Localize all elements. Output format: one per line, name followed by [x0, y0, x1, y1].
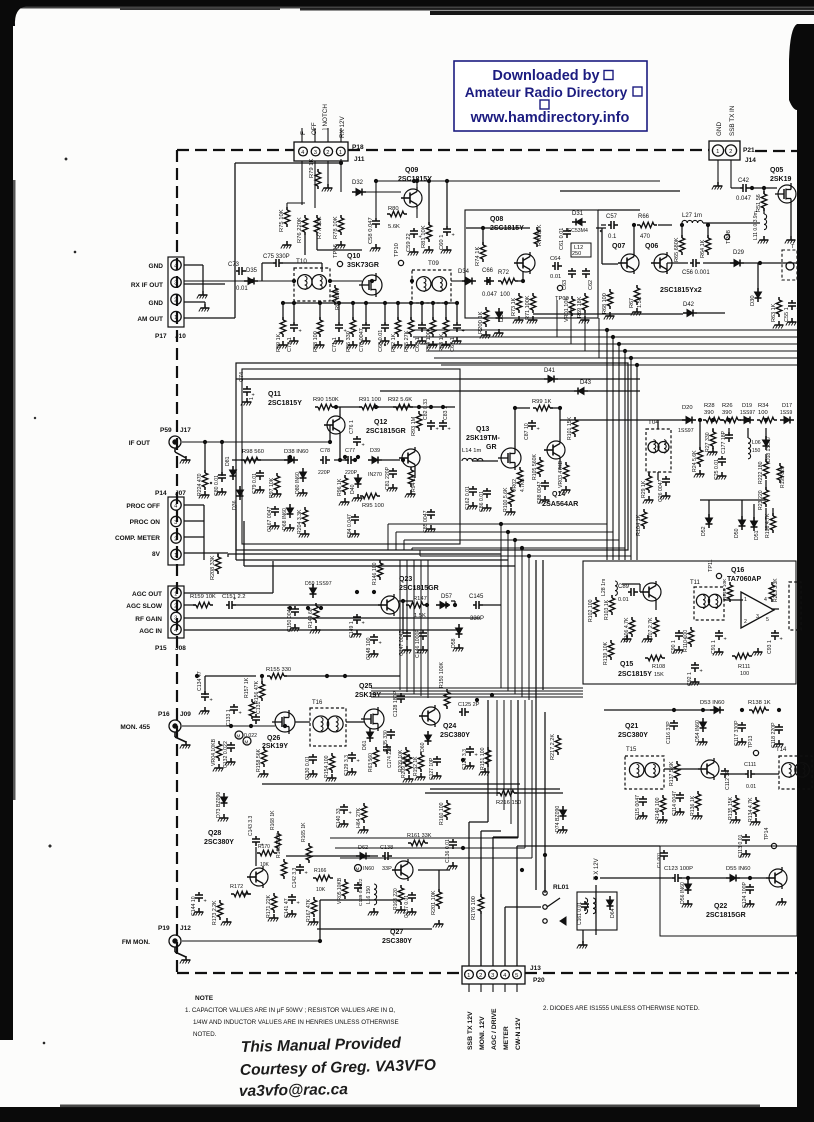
resistor R74 1K: [482, 242, 484, 245]
riser J13 pin1: [468, 822, 470, 966]
wire Q12 emitter chain: [414, 469, 416, 478]
svg-text:+: +: [305, 871, 308, 877]
svg-text:R108: R108: [652, 664, 665, 670]
bus wire h3-3: [371, 696, 583, 698]
capacitor C59 22u: [413, 228, 415, 231]
svg-text:R87 10K: R87 10K: [335, 288, 341, 310]
wire C56-D29: [703, 262, 734, 264]
svg-text:R81 10K: R81 10K: [421, 225, 427, 248]
coax ground stub 2: [174, 732, 176, 737]
resistor R69 18K: [584, 293, 586, 296]
svg-text:D57: D57: [441, 594, 453, 600]
R74 top: [482, 228, 484, 245]
bus lower v4: [524, 700, 526, 848]
link C177 drop: [728, 428, 730, 436]
svg-text:R138 1K: R138 1K: [748, 700, 771, 706]
ground R158: [263, 770, 265, 774]
svg-text:33P: 33P: [382, 866, 392, 872]
wire AGC IN: [184, 629, 460, 631]
resistor R84 100K: [432, 317, 434, 320]
wire P18 pin1 down: [340, 159, 342, 192]
svg-text:D80 IN60: D80 IN60: [295, 472, 301, 494]
resistor R73 1K: [518, 293, 520, 296]
ground D40: [357, 494, 359, 498]
capacitor C118 220P: [778, 724, 780, 727]
coax ground stub 3: [174, 947, 176, 952]
svg-text:+: +: [349, 811, 352, 817]
capacitor C80 0.01: [221, 472, 223, 475]
resistor R165 1K: [308, 843, 310, 846]
svg-text:R111: R111: [738, 664, 750, 670]
diode D19 1SS97: [740, 419, 744, 421]
svg-text:MON. 455: MON. 455: [120, 724, 150, 731]
svg-text:MONI. 12V: MONI. 12V: [479, 1016, 486, 1050]
svg-text:R137 5.6K: R137 5.6K: [669, 761, 675, 786]
svg-text:3: 3: [756, 614, 759, 620]
svg-text:AGC IN: AGC IN: [139, 628, 162, 635]
P14 pin4 wire: [184, 504, 204, 506]
svg-text:D20: D20: [682, 405, 693, 411]
resistor R160 100: [446, 800, 448, 803]
transformer T10: [294, 268, 330, 301]
wire Q09 top rail: [376, 180, 660, 182]
pot VR04 10KB: [218, 741, 220, 744]
wire L14 to Q13: [472, 460, 498, 462]
transistor Q14: [547, 441, 565, 459]
ground Q22: [781, 898, 783, 902]
transformer T01 sliver: [782, 250, 797, 280]
resistor R71 100K: [532, 293, 534, 296]
q27 wire: [418, 869, 450, 871]
resistor R103 1K: [611, 595, 613, 598]
svg-text:TP08: TP08: [726, 230, 732, 244]
svg-text:R78 10K: R78 10K: [333, 216, 339, 239]
resistor R65 680K: [681, 235, 683, 238]
ground R201: [438, 920, 440, 924]
svg-text:GND: GND: [149, 263, 164, 270]
svg-text:2SK19TM-: 2SK19TM-: [466, 435, 501, 442]
wire Q15 out: [655, 603, 657, 610]
capacitor C140 33u: [343, 804, 345, 807]
svg-text:1SS97: 1SS97: [678, 428, 694, 434]
svg-text:+: +: [204, 899, 207, 905]
page corner: [13, 7, 26, 27]
capacitor C136 0.01: [452, 839, 454, 842]
svg-text:R68 100: R68 100: [602, 293, 608, 314]
svg-text:R224 470: R224 470: [197, 473, 203, 496]
capacitor C64 0.01: [552, 265, 555, 267]
riser pin4 elbow: [505, 906, 541, 908]
resistor R26 390: [721, 419, 724, 421]
svg-text:C123 100P: C123 100P: [664, 866, 693, 872]
bus wire v2-3: [521, 548, 523, 697]
svg-text:C55 1: C55 1: [784, 307, 790, 322]
resistor R102 100: [595, 597, 597, 600]
resistor R97 10K: [276, 473, 278, 476]
ground R94: [410, 490, 412, 494]
ground C84: [354, 530, 356, 534]
svg-text:0.01: 0.01: [746, 784, 756, 790]
TX12V wire: [595, 885, 597, 935]
svg-text:R222 180: R222 180: [758, 461, 764, 484]
svg-text:3: 3: [174, 616, 177, 622]
ground R69: [584, 316, 586, 320]
ground C162: [472, 502, 474, 506]
wire D35-T10: [258, 280, 294, 282]
ground C69: [421, 337, 423, 341]
svg-text:C71 1: C71 1: [332, 337, 338, 352]
bus left-reach 1: [228, 553, 501, 555]
svg-text:R159 10K: R159 10K: [190, 594, 216, 600]
svg-text:C131: C131: [256, 701, 262, 714]
agc row wire: [560, 419, 686, 421]
scan left black bar: [0, 0, 13, 1040]
svg-text:P19: P19: [158, 925, 170, 932]
stage box Q15/Q16: [583, 561, 796, 684]
svg-text:R208 33K: R208 33K: [210, 555, 216, 580]
wire AM OUT riser: [234, 281, 236, 318]
connector P16/J09 (MON.455): [169, 720, 181, 732]
ground C88: [544, 496, 546, 500]
capacitor C69 1u: [421, 322, 423, 325]
ground C140: [343, 820, 345, 824]
ground R140: [662, 816, 664, 820]
coil L12 250u: [571, 243, 591, 257]
diode D64: [609, 896, 611, 900]
bus wire h2stub1: [395, 532, 397, 550]
dashed border bottom-right segment: [525, 972, 797, 974]
svg-text:D74 BZ090: D74 BZ090: [555, 806, 561, 832]
link R29 top: [648, 472, 650, 476]
riser pin1 up: [487, 700, 489, 822]
bus v to bottom 1: [535, 560, 537, 690]
wire C57 row: [601, 224, 606, 226]
diode D59 1SS97: [312, 584, 314, 588]
wire RF GAIN: [184, 617, 480, 619]
riser J13 pin4: [504, 907, 506, 966]
test point TP13: [753, 750, 758, 755]
svg-text:R92 5.6K: R92 5.6K: [388, 397, 412, 403]
svg-text:R98 560: R98 560: [242, 449, 264, 455]
svg-text:R195 820: R195 820: [780, 466, 786, 488]
resistor R83 1K: [445, 317, 447, 320]
capacitor C134 47u: [204, 691, 206, 694]
top-to-bus v1: [570, 306, 572, 344]
bus wire h2-4: [420, 555, 631, 557]
svg-text:R134 4.7K: R134 4.7K: [748, 797, 754, 822]
resistor R169 100K: [283, 859, 285, 862]
resistor R99 1K: [533, 407, 536, 409]
top-to-bus v3: [598, 318, 600, 358]
ground C127: [436, 772, 438, 776]
svg-text:D41: D41: [544, 368, 556, 374]
resistor R157 1K: [251, 699, 253, 702]
coil L28 1m: [615, 581, 617, 586]
svg-text:D73 BZ090: D73 BZ090: [216, 792, 222, 818]
capacitor C124 100P: [749, 884, 751, 887]
svg-text:FM MON.: FM MON.: [122, 939, 150, 946]
svg-text:D58: D58: [451, 638, 457, 648]
resistor R219 10K: [729, 582, 731, 585]
wire R86 top: [352, 303, 354, 320]
diode D57: [436, 604, 440, 606]
svg-text:J10: J10: [175, 333, 186, 340]
wire opamp out: [771, 608, 779, 610]
J13 pin1 lead down: [468, 984, 470, 992]
svg-text:L06: L06: [752, 440, 761, 446]
resistor R51 56: [763, 191, 765, 194]
resistor R63 1K: [778, 297, 780, 300]
wire to C123: [600, 877, 672, 879]
diode D20 1SS97: [682, 419, 686, 421]
resistor R111 100: [732, 655, 735, 657]
capacitor C77 220P: [345, 459, 348, 461]
svg-text:C112 3P: C112 3P: [725, 770, 731, 790]
diode D73 BZ090: [223, 793, 225, 797]
svg-text:2SC1815Y: 2SC1815Y: [268, 400, 302, 407]
svg-text:R82 1K: R82 1K: [391, 333, 397, 352]
svg-text:T11: T11: [690, 580, 701, 586]
svg-text:+: +: [462, 329, 465, 335]
svg-text:C66: C66: [482, 268, 494, 274]
svg-text:R170: R170: [258, 844, 270, 850]
resistor R159 10K: [193, 604, 196, 606]
capacitor C74 1u: [246, 386, 248, 389]
svg-text:R79 1K: R79 1K: [309, 159, 315, 178]
wire R81/C60 top: [428, 181, 430, 225]
resistor R72 100: [498, 280, 501, 282]
ground R29: [648, 496, 650, 500]
capacitor C85 0.047: [430, 509, 432, 512]
bus wire v2-1: [507, 532, 509, 691]
wire R224 top: [204, 442, 206, 473]
resistor R208 33K: [217, 554, 219, 557]
diode D36: [239, 486, 241, 490]
capacitor C130 0.01: [312, 754, 314, 757]
svg-text:R100 5.6K: R100 5.6K: [503, 487, 509, 512]
svg-text:C57: C57: [606, 214, 618, 220]
resistor R29 1K: [648, 473, 650, 476]
svg-text:3SK73GR: 3SK73GR: [347, 262, 379, 269]
svg-text:C82 0.33: C82 0.33: [423, 399, 429, 420]
wire T04 up: [657, 420, 659, 429]
diode D41: [544, 378, 548, 380]
C57 left stub: [596, 227, 606, 229]
svg-text:T14: T14: [776, 747, 787, 753]
capacitor C133 1u: [233, 704, 235, 707]
ground R111 area: [757, 648, 759, 652]
pot VR03 47KB: [565, 462, 567, 465]
svg-text:3: 3: [314, 150, 317, 156]
diode D58: [458, 624, 460, 628]
wire D29 right2: [744, 262, 797, 264]
bus wire v4: [630, 358, 632, 560]
ground R84: [432, 341, 434, 345]
svg-text:D52: D52: [701, 526, 707, 536]
svg-text:1: 1: [174, 591, 177, 597]
svg-text:FC53M4: FC53M4: [568, 228, 588, 234]
bus left v2: [413, 560, 415, 694]
wire IF line left: [184, 280, 294, 282]
J13 pin3 lead down: [492, 984, 494, 992]
wire R89 top: [282, 303, 284, 320]
bus lr1 stub: [227, 554, 229, 557]
svg-text:+: +: [210, 698, 213, 704]
bus left v0: [399, 560, 401, 690]
diode D61: [369, 728, 371, 732]
diode D34: [462, 280, 466, 282]
svg-text:J08: J08: [175, 645, 186, 652]
svg-text:D60: D60: [420, 742, 426, 752]
capacitor C92 1u: [694, 662, 696, 665]
ground C86: [486, 504, 488, 508]
capacitor C78 220P: [320, 459, 323, 461]
resistor R136 1K: [697, 791, 699, 794]
scan bottom black bar: [0, 1107, 814, 1122]
svg-text:R209 10K: R209 10K: [401, 755, 407, 778]
bus wire h2stub2: [403, 540, 405, 550]
ground R136: [697, 812, 699, 816]
resistor R68 100: [609, 289, 611, 292]
C75 left drop: [261, 263, 263, 281]
transistor Q05 (FET): [778, 185, 796, 203]
test point TP09: [557, 285, 562, 290]
ground C149: [356, 630, 358, 634]
svg-text:0.047: 0.047: [736, 196, 752, 202]
svg-text:+: +: [475, 753, 478, 759]
circled M 0.022: [235, 731, 243, 739]
svg-text:R26: R26: [722, 403, 733, 409]
wire C71 top: [338, 303, 340, 322]
svg-text:R74 1K: R74 1K: [475, 247, 481, 266]
svg-text:D64: D64: [610, 908, 616, 918]
wire R90-R91: [332, 406, 362, 408]
svg-text:1SS97: 1SS97: [740, 410, 755, 416]
svg-text:D31: D31: [572, 211, 584, 217]
C75 loop left: [262, 262, 273, 264]
diode D53 IN60: [710, 709, 714, 711]
wire C123-D55: [682, 877, 726, 879]
diode D32: [352, 191, 356, 193]
svg-text:C76 1: C76 1: [349, 420, 355, 434]
relay RL01 coil: [577, 892, 617, 930]
wire IF line T09 to D34: [451, 280, 466, 282]
svg-text:D68 IN60: D68 IN60: [282, 508, 288, 530]
svg-text:C111: C111: [744, 762, 756, 768]
svg-text:] NOTCH: ] NOTCH: [322, 104, 329, 130]
wire R51-L11: [763, 208, 765, 214]
svg-text:L27 1m: L27 1m: [682, 213, 702, 219]
wire C68 top: [384, 303, 386, 322]
scan right black bar: [797, 24, 814, 1122]
svg-text:Q26: Q26: [267, 735, 280, 742]
wire P17 pin3 right: [184, 283, 225, 285]
scan top black bar: [0, 0, 814, 7]
svg-text:R85 27K: R85 27K: [404, 330, 410, 352]
svg-text:100: 100: [758, 410, 768, 416]
wire C111-T14: [755, 773, 779, 775]
ground C132: [230, 758, 232, 762]
svg-text:D59: D59: [305, 581, 315, 587]
svg-text:C78: C78: [320, 448, 330, 454]
P14 pin2 wire: [184, 536, 204, 538]
wire C70 top: [365, 303, 367, 322]
svg-text:100: 100: [500, 292, 511, 298]
op-amp U Q16: [741, 592, 774, 628]
svg-text:P14: P14: [155, 490, 167, 497]
svg-text:Q23: Q23: [399, 576, 412, 583]
test point TP08: [724, 234, 729, 239]
ground R86: [352, 341, 354, 345]
transformer T04: [646, 429, 671, 472]
resistor R93 1M: [418, 411, 420, 414]
bus lr2 stub: [235, 505, 237, 560]
resistor R167 47K: [313, 897, 315, 900]
ground C71: [338, 337, 340, 341]
wire Q09 collector up: [416, 181, 418, 187]
resistor R224 470: [204, 470, 206, 473]
wire D42 row: [533, 313, 683, 315]
resistor R196 4.7K: [772, 513, 774, 516]
svg-text:C161 0.01: C161 0.01: [577, 902, 583, 925]
wire x235 riser: [234, 163, 236, 281]
svg-text:J17: J17: [180, 427, 191, 434]
svg-text:R176 100: R176 100: [471, 896, 477, 920]
svg-text:M: M: [356, 867, 360, 872]
fm link: [320, 899, 400, 901]
svg-text:Q15: Q15: [620, 661, 633, 668]
wire D41 right: [558, 378, 640, 380]
svg-text:150: 150: [752, 448, 761, 454]
svg-text:R219 10K: R219 10K: [722, 578, 728, 600]
svg-text:GND: GND: [716, 122, 723, 136]
stage box Q22: [660, 846, 797, 936]
svg-text:P18: P18: [352, 144, 364, 151]
ground R96: [344, 498, 346, 502]
wire Q23 base: [380, 604, 381, 606]
resistor R200 1K: [485, 307, 487, 310]
svg-text:C143 3.3: C143 3.3: [248, 815, 254, 836]
svg-text:C174 22P: C174 22P: [387, 745, 393, 768]
transformer T09: [412, 270, 451, 303]
resistor R79 1K: [317, 169, 319, 172]
svg-text:Q12: Q12: [374, 419, 387, 426]
ground C124: [749, 900, 751, 904]
ground C141: [291, 910, 293, 914]
capacitor C128 180P: [400, 693, 402, 696]
wire Q21-C111: [720, 773, 745, 775]
ground R106: [626, 635, 628, 639]
svg-text:D39: D39: [370, 448, 380, 454]
ground C167: [274, 522, 276, 526]
svg-text:C136 0.01: C136 0.01: [445, 839, 451, 863]
fm mid row: [317, 928, 432, 930]
wire 8V right: [184, 552, 228, 554]
wire C42 right: [750, 187, 777, 189]
ground C90: [678, 646, 680, 650]
capacitor C113 0.01: [745, 834, 747, 837]
relay wire up: [544, 870, 546, 893]
riser J13 pin2: [480, 914, 482, 966]
wire base Q11: [339, 407, 341, 414]
svg-text:C133 1: C133 1: [226, 709, 232, 726]
svg-text:R150 100K: R150 100K: [439, 662, 445, 688]
wire R147 junction: [402, 601, 404, 634]
wire y191 rail: [560, 190, 680, 192]
ground R152: [420, 773, 422, 777]
svg-text:R72: R72: [498, 270, 510, 276]
link D51 col: [753, 504, 755, 521]
